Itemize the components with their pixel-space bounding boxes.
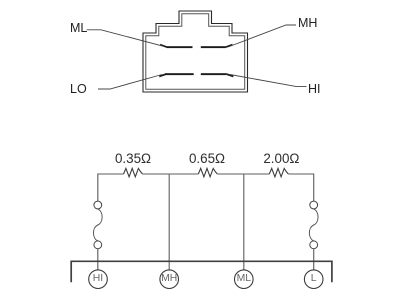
pin blade top-right (MH) xyxy=(201,44,233,48)
wire branch ML from bus to terminal xyxy=(243,174,245,270)
pin blade top-left (ML) xyxy=(160,44,192,48)
resistor R1 0.35 ohm xyxy=(124,168,143,176)
label 0.35 ohm xyxy=(115,152,151,165)
label 2.00 ohm xyxy=(263,152,299,165)
label terminal HI xyxy=(93,274,103,284)
thermal limiter right: upper bead xyxy=(310,201,318,209)
connector housing outline (outer) xyxy=(143,11,248,92)
wire branch MH from bus to terminal xyxy=(168,174,170,270)
pin blade bottom-right (HI) xyxy=(201,73,234,77)
label LO xyxy=(0,0,1,1)
label 0.65 ohm xyxy=(0,0,1,1)
wire callout ML to top-left pin xyxy=(87,30,164,47)
label terminal ML xyxy=(237,274,251,284)
terminal MH circle xyxy=(160,270,179,289)
wire left branch from bus to thermal limiter xyxy=(97,174,99,202)
wire bus segment between R2 and R3 xyxy=(217,173,269,175)
wire right branch from bus to thermal limiter xyxy=(313,174,315,202)
mounting bracket rail xyxy=(71,261,332,282)
resistor R3 2.00 ohm xyxy=(269,168,288,176)
thermal limiter left: lower bead xyxy=(94,241,102,249)
wire callout HI to bottom-right pin xyxy=(230,75,307,87)
wire callout LO to bottom-left pin xyxy=(98,75,162,90)
label terminal L xyxy=(311,274,317,284)
pin blade bottom-left (LO) xyxy=(159,73,193,77)
resistor R2 0.65 ohm xyxy=(198,168,217,176)
wire bus segment right xyxy=(288,173,313,175)
wire bus segment between R1 and R2 xyxy=(143,173,199,175)
thermal limiter right: S-curve element xyxy=(309,209,318,241)
label ML xyxy=(70,22,87,35)
wire callout MH to top-right pin xyxy=(228,25,296,47)
label terminal MH xyxy=(161,274,177,284)
label 0.65 ohm xyxy=(189,152,225,165)
label 2.00 ohm xyxy=(0,0,1,1)
label HI xyxy=(308,83,321,96)
connector housing outline (inner) xyxy=(146,14,245,90)
thermal limiter left: upper bead xyxy=(94,201,102,209)
label LO xyxy=(70,83,87,96)
terminal HI circle xyxy=(89,270,108,289)
terminal L circle xyxy=(304,270,323,289)
label 0.35 ohm xyxy=(0,0,1,1)
wire bus segment left xyxy=(98,173,124,175)
thermal limiter right: lower bead xyxy=(310,241,318,249)
label ML xyxy=(0,0,1,1)
wire from right thermal limiter to terminal L xyxy=(313,249,315,270)
terminal ML circle xyxy=(235,270,254,289)
label MH xyxy=(0,0,1,1)
wire from left thermal limiter to terminal HI xyxy=(97,249,99,270)
label MH xyxy=(298,17,317,30)
thermal limiter left: S-curve element xyxy=(93,209,102,241)
label HI xyxy=(0,0,1,1)
